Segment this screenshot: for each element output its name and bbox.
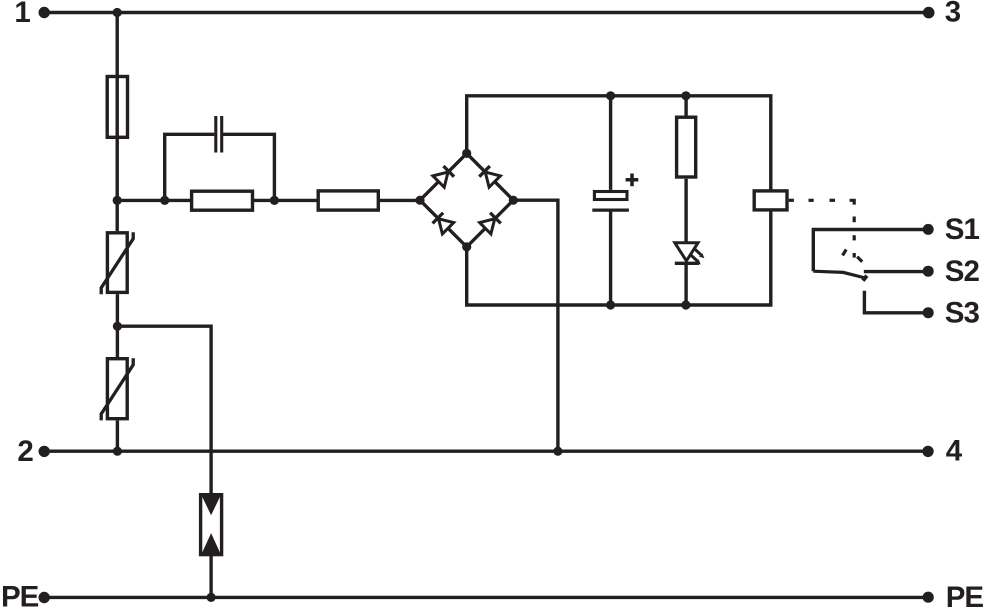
junction node fuse to main line	[113, 196, 122, 205]
junction node LED bottom	[681, 300, 690, 309]
wire vertical from node 1 through fuse to mid node	[115, 13, 118, 232]
junction node RC block right	[270, 196, 279, 205]
LED emission arrows	[690, 248, 704, 264]
junction node RC block left	[160, 196, 169, 205]
terminal dot S1	[923, 224, 934, 235]
junction node bridge left corner	[415, 196, 424, 205]
junction node top of fuse branch	[113, 8, 122, 17]
junction node varistor midpoint	[113, 322, 122, 331]
svg-text:S1: S1	[945, 213, 980, 246]
surge arrester (gas discharge tube)	[201, 495, 222, 555]
resistor R3	[677, 117, 696, 177]
wire RC block right vertical and top branch right	[222, 134, 275, 200]
capacitor C2 electrolytic positive plate	[594, 192, 627, 200]
wire bridge right corner to line 4	[513, 200, 558, 451]
wire between varistor 1 and varistor 2	[116, 294, 119, 357]
svg-text:3: 3	[945, 0, 961, 28]
svg-text:1: 1	[14, 0, 30, 29]
diode D3 (upper-right arm)	[479, 166, 500, 187]
resistor R1	[192, 191, 253, 210]
junction node bridge right corner	[509, 196, 518, 205]
relay changeover contact arm	[813, 271, 865, 278]
wire resistor R3 to LED	[684, 179, 687, 243]
wire line 2	[44, 450, 928, 453]
arrester top electrode triangle	[202, 496, 221, 515]
terminal dot S3	[923, 307, 934, 318]
terminal dot 3	[923, 7, 935, 19]
wire electrolytic branch lower	[609, 210, 612, 305]
svg-text:4: 4	[946, 434, 963, 467]
capacitor C2 negative plate	[592, 208, 629, 211]
wire RC block left vertical and top branch left	[165, 134, 215, 200]
varistor RU2	[107, 359, 127, 419]
LED D5	[675, 243, 698, 261]
dashed actuation linkage	[789, 200, 863, 261]
bridge rectifier diamond	[420, 153, 513, 247]
terminal dot 4	[922, 446, 933, 457]
junction node line 4 tap	[553, 447, 562, 456]
junction node bridge top corner	[462, 149, 471, 158]
junction node arrester to PE	[207, 593, 216, 602]
terminal dot 1	[39, 7, 50, 18]
terminal dot PE right	[923, 592, 934, 603]
arrester bottom electrode triangle	[202, 533, 221, 554]
svg-text:PE: PE	[946, 581, 983, 608]
wire contact S2 lead	[864, 270, 928, 273]
junction node R3 top	[681, 91, 690, 100]
terminal dot PE left	[39, 592, 50, 603]
wire net 1-3 top rail	[44, 11, 929, 14]
fuse F1	[107, 77, 127, 138]
terminal dot S2	[923, 266, 934, 277]
contact arm tip	[863, 276, 867, 281]
svg-text:PE: PE	[1, 581, 39, 608]
junction node varistor to line 2	[113, 447, 122, 456]
wire varistor 2 to line 2	[116, 420, 119, 451]
wire DC rails loop (bridge top corner, DC+ rail, relay branch, DC- rail, bridge bottom corner)	[467, 96, 771, 305]
wire mid horizontal main line	[117, 199, 420, 202]
diode D4 (lower-right arm)	[480, 212, 501, 233]
relay coil K1	[754, 191, 787, 210]
varistor RU1	[107, 233, 127, 293]
diode D1 (lower-left arm)	[432, 212, 453, 233]
svg-text:S3: S3	[945, 296, 980, 329]
plus sign polarity mark	[626, 174, 639, 187]
terminal dot 2	[39, 446, 50, 457]
wire LED to DC- rail	[684, 263, 687, 305]
capacitor C1 plates	[214, 116, 217, 153]
wire electrolytic branch upper	[609, 96, 612, 190]
wire resistor R3 branch upper	[684, 96, 687, 116]
junction node elco top	[606, 91, 615, 100]
junction node bridge bottom corner	[462, 242, 471, 251]
wire contact S3 vertical and lead	[864, 291, 928, 313]
resistor R2	[318, 191, 378, 210]
wire contact S1 lead and common vertical	[813, 230, 928, 272]
wire arrester to PE	[209, 555, 212, 598]
junction node elco bottom	[606, 300, 615, 309]
wire varistor midpoint branch to arrester	[117, 326, 211, 495]
wire PE rail	[44, 596, 928, 599]
diode D2 (upper-left arm)	[433, 166, 454, 187]
svg-text:S2: S2	[945, 255, 980, 288]
svg-text:2: 2	[17, 435, 33, 468]
